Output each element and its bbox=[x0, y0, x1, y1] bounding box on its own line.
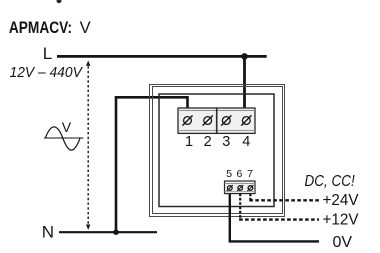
svg-text:0V: 0V bbox=[333, 234, 353, 251]
svg-text:5: 5 bbox=[226, 168, 232, 180]
wire +24V dashed bbox=[249, 194, 251, 201]
svg-text:L: L bbox=[43, 44, 52, 63]
AC source sine wave bbox=[45, 127, 80, 150]
svg-text:2: 2 bbox=[204, 134, 212, 150]
wire 0V bbox=[230, 194, 319, 242]
AC source sine symbol baseline bbox=[44, 137, 84, 139]
svg-text:+24V: +24V bbox=[323, 192, 359, 209]
svg-text:V: V bbox=[62, 119, 72, 135]
arrow up to L bbox=[86, 61, 90, 66]
svg-text:7: 7 bbox=[247, 168, 253, 180]
meter outer frame bbox=[150, 85, 285, 217]
svg-text:4: 4 bbox=[242, 134, 250, 150]
measurement dashed line V between L and N bbox=[87, 66, 89, 225]
terminal 3 screw bbox=[221, 115, 231, 125]
terminal 5 screw bbox=[227, 185, 233, 191]
terminal 6 screw bbox=[237, 185, 243, 191]
wire +12V dashed bbox=[239, 194, 241, 220]
svg-text:APMACV:V: APMACV:V bbox=[9, 19, 91, 37]
wire N line bbox=[59, 231, 157, 233]
terminal block TB1 body (terminals 1-4) bbox=[178, 108, 255, 133]
svg-text:12V – 440V: 12V – 440V bbox=[10, 65, 84, 81]
terminal block TB2 body (terminals 5-7) bbox=[225, 181, 256, 194]
svg-text:3: 3 bbox=[222, 134, 230, 150]
svg-text:1: 1 bbox=[185, 134, 193, 150]
wire L to terminal 4 bbox=[243, 56, 246, 110]
arrow down to N bbox=[86, 225, 90, 230]
terminal 1 screw bbox=[182, 115, 192, 125]
terminal 4 screw bbox=[241, 115, 251, 125]
meter inner frame bbox=[159, 94, 274, 207]
meter middle frame bbox=[153, 87, 283, 214]
svg-text:+12V: +12V bbox=[323, 212, 359, 229]
node junction L to meter bbox=[241, 53, 248, 60]
terminal 2 screw bbox=[203, 115, 213, 125]
terminal 7 screw bbox=[247, 185, 253, 191]
svg-text:6: 6 bbox=[236, 168, 242, 180]
svg-text:DC, CC!: DC, CC! bbox=[305, 173, 356, 190]
node junction N to meter bbox=[113, 229, 119, 235]
stray cropped text mark bbox=[57, 0, 62, 3]
svg-text:N: N bbox=[42, 223, 54, 242]
wire L line bbox=[57, 55, 267, 58]
wire N to terminal 1 bbox=[116, 97, 188, 232]
